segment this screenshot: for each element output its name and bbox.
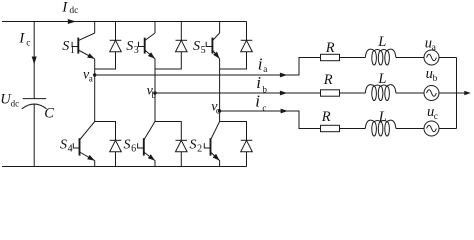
svg-text:a: a <box>89 73 93 83</box>
label I_c <box>18 30 30 48</box>
current arrow i_b <box>280 91 287 96</box>
current arrow i_a <box>280 73 287 78</box>
label v_c <box>211 100 220 116</box>
wire bottom diode B bend <box>155 122 181 141</box>
label S2 <box>190 137 203 154</box>
svg-text:2: 2 <box>197 143 202 154</box>
svg-text:S: S <box>60 137 67 152</box>
inductor L phase a <box>365 49 396 65</box>
wire leg C collector drop <box>219 22 221 34</box>
svg-text:c: c <box>216 106 220 116</box>
svg-text:I: I <box>61 0 68 16</box>
label v_b <box>147 84 157 100</box>
label L phase c <box>378 109 387 125</box>
wire L to source phase b <box>396 92 424 94</box>
label U_dc <box>0 91 19 108</box>
node v_a <box>93 73 96 76</box>
wire leg C mid <box>219 59 221 122</box>
wire R to L phase c <box>340 128 366 130</box>
IGBT S4 <box>73 122 94 161</box>
wire top diode B drop <box>180 22 182 41</box>
svg-text:5: 5 <box>201 45 206 56</box>
AC source u_b <box>424 86 439 101</box>
inductor L phase c <box>365 120 396 136</box>
label S5 <box>193 39 206 56</box>
IGBT S5 <box>206 33 219 59</box>
label i_b <box>256 73 267 94</box>
svg-text:S: S <box>124 137 131 152</box>
svg-text:c: c <box>26 38 30 48</box>
svg-text:4: 4 <box>68 143 73 154</box>
svg-text:i: i <box>256 73 261 92</box>
wire L to source phase c <box>396 128 424 130</box>
wire bottom diode C to bus <box>246 152 248 167</box>
label u_c <box>427 104 438 122</box>
wire bottom diode C bend <box>220 122 247 141</box>
label v_a <box>83 67 93 83</box>
label R phase b <box>323 72 333 88</box>
wire DC-link branch bottom <box>33 104 35 166</box>
current arrow I_dc <box>68 19 76 24</box>
wire bottom diode B to bus <box>180 152 182 167</box>
wire top diode A drop <box>115 22 117 41</box>
node v_b <box>153 91 156 94</box>
node v_c <box>218 109 221 112</box>
diode antiparallel with S2 <box>241 140 253 152</box>
IGBT S1 <box>72 33 95 59</box>
svg-text:L: L <box>377 71 386 87</box>
diode antiparallel with S1 <box>110 40 122 52</box>
wire top diode A to leg <box>95 52 116 69</box>
label S4 <box>60 137 73 154</box>
svg-text:dc: dc <box>69 6 78 16</box>
wire top diode C to leg <box>220 52 247 69</box>
wire DC-link branch top <box>33 22 35 99</box>
label u_b <box>426 66 438 84</box>
svg-text:R: R <box>325 40 335 56</box>
svg-text:i: i <box>258 54 263 73</box>
label R phase c <box>321 109 331 125</box>
svg-text:c: c <box>262 103 266 113</box>
label I_dc <box>61 0 78 16</box>
svg-text:b: b <box>262 84 267 94</box>
svg-text:dc: dc <box>11 99 20 109</box>
svg-text:3: 3 <box>134 45 139 56</box>
wire phase c <box>220 111 321 129</box>
diode antiparallel with S5 <box>241 40 253 52</box>
wire bottom diode A to bus <box>115 152 117 167</box>
label L phase b <box>377 71 386 87</box>
inductor L phase b <box>365 85 396 101</box>
svg-text:b: b <box>151 90 156 100</box>
svg-text:S: S <box>193 39 200 54</box>
AC source u_c <box>424 121 439 136</box>
wire leg B emitter to bus <box>154 160 156 166</box>
svg-text:i: i <box>255 92 260 111</box>
svg-text:b: b <box>433 74 438 84</box>
resistor R phase a <box>321 54 340 60</box>
wire neutral bus <box>456 58 458 129</box>
svg-text:R: R <box>323 72 333 88</box>
wire leg A emitter to bus <box>94 160 96 166</box>
IGBT S3 <box>139 33 156 59</box>
wire leg A mid <box>94 59 96 122</box>
svg-text:S: S <box>62 39 69 54</box>
label i_a <box>258 54 268 74</box>
resistor R phase b <box>321 90 340 96</box>
wire L to source phase a <box>396 57 424 59</box>
wire leg B mid <box>154 59 156 122</box>
current arrow i_c <box>281 109 288 114</box>
wire leg A collector drop <box>94 22 96 34</box>
svg-text:6: 6 <box>131 143 136 154</box>
wire R to L phase b <box>340 92 366 94</box>
IGBT S2 <box>204 122 219 161</box>
label R phase a <box>325 40 335 56</box>
wire bottom DC bus <box>2 166 247 168</box>
wire top diode C drop <box>246 22 248 41</box>
wire bottom diode A bend <box>95 122 116 141</box>
arrow output <box>464 91 471 95</box>
label S1 <box>62 39 75 56</box>
wire top DC bus <box>2 21 247 23</box>
label i_c <box>255 92 266 113</box>
wire top diode B to leg <box>155 52 181 69</box>
wire source to neutral phase a <box>439 57 457 59</box>
IGBT S6 <box>138 122 155 161</box>
diode antiparallel with S6 <box>176 140 188 152</box>
wire source to neutral phase c <box>439 128 457 130</box>
label S6 <box>124 137 137 154</box>
svg-text:c: c <box>434 112 438 122</box>
diode antiparallel with S4 <box>110 140 122 152</box>
label L phase a <box>377 34 386 50</box>
svg-text:L: L <box>378 109 387 125</box>
svg-text:S: S <box>126 39 133 54</box>
wire leg B collector drop <box>154 22 156 34</box>
wire phase a <box>95 58 321 76</box>
svg-text:S: S <box>190 137 197 152</box>
svg-text:L: L <box>377 34 386 50</box>
label u_a <box>425 35 437 53</box>
svg-text:1: 1 <box>70 45 75 56</box>
svg-text:a: a <box>263 64 267 74</box>
label C <box>44 105 54 121</box>
wire phase b <box>155 92 321 94</box>
svg-text:C: C <box>44 105 54 121</box>
diode antiparallel with S3 <box>176 40 188 52</box>
label S3 <box>126 39 139 56</box>
wire source to neutral phase b <box>439 92 468 94</box>
svg-text:R: R <box>321 109 331 125</box>
wire leg C emitter to bus <box>219 160 221 166</box>
svg-text:I: I <box>18 30 25 46</box>
resistor R phase c <box>321 125 340 131</box>
current arrow I_c <box>32 57 37 65</box>
AC source u_a <box>424 50 439 65</box>
wire R to L phase a <box>340 57 366 59</box>
capacitor C <box>22 99 47 109</box>
